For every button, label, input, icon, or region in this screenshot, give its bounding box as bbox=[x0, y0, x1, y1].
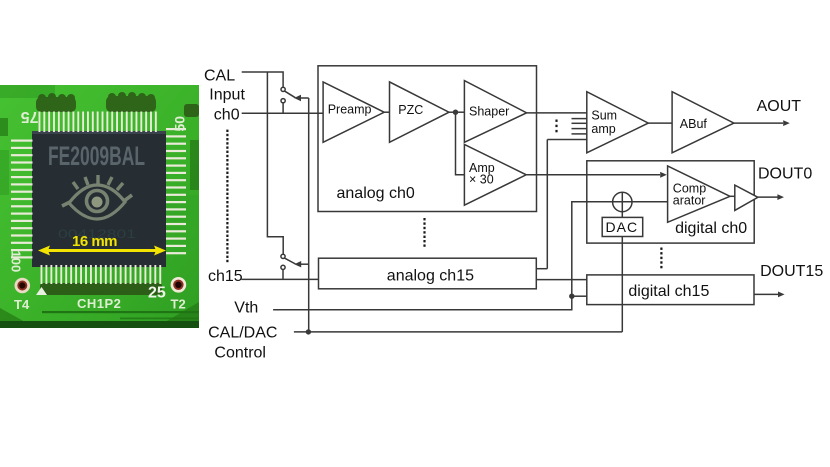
svg-text:25: 25 bbox=[148, 285, 166, 302]
svg-text:CAL/DAC: CAL/DAC bbox=[208, 324, 277, 341]
svg-text:Input: Input bbox=[209, 86, 245, 103]
svg-text:CAL: CAL bbox=[204, 67, 235, 84]
svg-text:T4: T4 bbox=[14, 297, 30, 312]
svg-text:AOUT: AOUT bbox=[757, 98, 802, 115]
svg-text:analog ch15: analog ch15 bbox=[387, 268, 474, 285]
svg-text:FE2009BAL: FE2009BAL bbox=[48, 141, 145, 171]
svg-text:ch15: ch15 bbox=[208, 268, 243, 285]
svg-text:CH1P2: CH1P2 bbox=[77, 296, 121, 311]
svg-text:digital ch0: digital ch0 bbox=[675, 220, 747, 237]
svg-text:Vth: Vth bbox=[234, 300, 258, 317]
svg-text:arator: arator bbox=[673, 193, 706, 207]
svg-text:Shaper: Shaper bbox=[469, 104, 509, 118]
svg-text:DOUT0: DOUT0 bbox=[758, 165, 812, 182]
svg-text:PZC: PZC bbox=[398, 103, 423, 117]
svg-text:Preamp: Preamp bbox=[328, 103, 372, 117]
svg-text:75: 75 bbox=[21, 108, 39, 125]
svg-text:T2: T2 bbox=[171, 297, 186, 312]
svg-text:DAC: DAC bbox=[606, 219, 639, 235]
svg-text:Control: Control bbox=[214, 344, 266, 361]
svg-text:16 mm: 16 mm bbox=[72, 233, 118, 250]
svg-text:50: 50 bbox=[172, 116, 188, 132]
svg-text:amp: amp bbox=[591, 122, 615, 136]
svg-text:digital ch15: digital ch15 bbox=[628, 283, 709, 300]
svg-text:× 30: × 30 bbox=[469, 172, 494, 186]
svg-text:ABuf: ABuf bbox=[680, 117, 708, 131]
svg-text:DOUT15: DOUT15 bbox=[760, 263, 823, 280]
svg-text:Sum: Sum bbox=[591, 108, 617, 122]
svg-text:100: 100 bbox=[9, 251, 24, 273]
svg-text:analog ch0: analog ch0 bbox=[337, 185, 415, 202]
svg-text:ch0: ch0 bbox=[214, 107, 240, 124]
